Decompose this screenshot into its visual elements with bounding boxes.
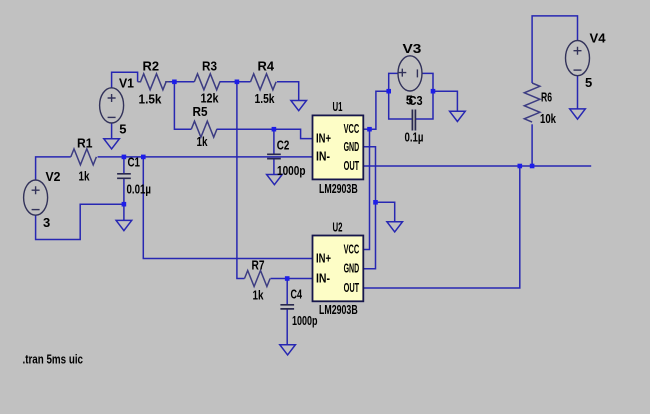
resistor R2 [138, 74, 169, 90]
wire U1 GND chain down to U2 GND [363, 147, 376, 269]
svg-text:C2: C2 [277, 138, 290, 153]
wire V2 bottom loop [36, 204, 124, 239]
ground below C4 [280, 345, 296, 355]
ground below C1 [116, 220, 132, 230]
ground right of R4 [291, 101, 307, 111]
wire R3R4 junction down to R7 [237, 82, 245, 279]
svg-text:R5: R5 [193, 104, 208, 119]
op-amp U2 box [313, 236, 364, 302]
wire R2R3 junction down to R5 [174, 82, 191, 129]
wire C1 bottom lead [123, 178, 125, 204]
resistor R4 [251, 74, 277, 90]
svg-text:IN+: IN+ [316, 251, 331, 266]
svg-text:R4: R4 [258, 59, 275, 74]
svg-text:OUT: OUT [344, 158, 360, 173]
svg-text:R7: R7 [252, 258, 265, 273]
wire V1 top to R2 [112, 72, 138, 88]
wire node to U2 IN+ [143, 157, 312, 259]
capacitor C3 (horizontal) [412, 110, 415, 131]
svg-text:U2: U2 [333, 220, 343, 235]
resistor R7 [245, 271, 271, 287]
wire R2 right to R3 left [165, 81, 194, 83]
svg-text:1000p: 1000p [292, 313, 318, 328]
svg-text:0.01µ: 0.01µ [127, 182, 152, 197]
svg-text:C3: C3 [409, 93, 423, 108]
svg-text:1k: 1k [197, 134, 209, 149]
wire C3 right loop [416, 91, 433, 119]
svg-text:LM2903B: LM2903B [319, 302, 358, 317]
wire R3 right to R4 left [220, 81, 251, 83]
svg-text:GND: GND [344, 261, 360, 276]
resistor R1 [71, 149, 97, 165]
svg-text:1.5k: 1.5k [255, 91, 276, 106]
svg-text:3: 3 [43, 215, 50, 230]
svg-text:1k: 1k [79, 169, 91, 184]
capacitor C1 [117, 174, 131, 179]
wire main line R1 to U1 IN- [98, 156, 313, 158]
resistor R6 (vertical) [524, 83, 540, 122]
wire R6 top to V4 top [532, 16, 577, 83]
svg-text:V3: V3 [403, 41, 422, 56]
svg-text:IN+: IN+ [316, 131, 331, 146]
voltage source V1 [100, 88, 124, 123]
wire U1 OUT line [363, 165, 592, 167]
svg-text:5: 5 [119, 121, 126, 136]
svg-text:VCC: VCC [344, 241, 360, 256]
svg-text:0.1µ: 0.1µ [405, 130, 424, 145]
ground for U1/U2 GND [387, 222, 403, 232]
ground right of V3 [450, 111, 466, 121]
svg-text:V2: V2 [46, 169, 61, 184]
svg-text:V1: V1 [119, 76, 134, 91]
wire V3 right lead [422, 73, 433, 91]
wire C2 ground stem [273, 159, 275, 175]
svg-text:1000p: 1000p [277, 163, 306, 178]
wire R7 right to U2 IN- [271, 278, 313, 280]
wire C1 ground stem [123, 204, 125, 220]
wire C3 left loop [389, 91, 412, 119]
wire C4 top lead [286, 279, 288, 305]
ground below C2 [267, 175, 283, 185]
voltage source V2 [24, 180, 48, 215]
wire U1 VCC lead [363, 128, 370, 130]
svg-text:R1: R1 [77, 136, 93, 151]
wire C4 bottom lead to ground [286, 309, 288, 345]
resistor R5 [191, 121, 217, 137]
wire R5 right to C2 node to U1 IN+ [217, 129, 313, 138]
resistor R3 [194, 74, 220, 90]
svg-text:R3: R3 [202, 59, 217, 74]
wire V2 top stem [36, 157, 71, 180]
svg-text:OUT: OUT [344, 280, 360, 295]
wire V4 bottom stem [577, 76, 579, 109]
svg-text:V4: V4 [590, 31, 607, 46]
svg-text:R6: R6 [541, 90, 552, 105]
svg-text:C1: C1 [128, 155, 141, 170]
svg-text:1.5k: 1.5k [139, 92, 163, 107]
wire V1 bottom stem [111, 123, 113, 139]
svg-text:U1: U1 [333, 99, 343, 114]
voltage source V4 [566, 41, 590, 76]
wire C2 top lead [273, 129, 275, 154]
wire U2 OUT feedback up [363, 166, 520, 288]
capacitor C4 [280, 305, 294, 309]
wire V3 node to ground [433, 91, 457, 111]
svg-text:1k: 1k [253, 288, 265, 303]
op-amp U1 box [313, 115, 364, 179]
svg-text:GND: GND [344, 139, 360, 154]
svg-text:5: 5 [585, 75, 592, 90]
svg-text:R2: R2 [143, 59, 160, 74]
wire VCC riser to V3 left node [370, 91, 389, 129]
svg-text:IN-: IN- [316, 270, 330, 285]
ground below V1 [104, 139, 120, 149]
svg-text:.tran 5ms uic: .tran 5ms uic [23, 352, 84, 367]
wire R6 bottom to OUT line [531, 124, 533, 166]
svg-text:LM2903B: LM2903B [319, 181, 358, 196]
wire V3 left lead [389, 73, 398, 91]
capacitor C2 [267, 154, 281, 158]
voltage source V3 (rotated, + left) [398, 56, 422, 91]
svg-text:IN-: IN- [316, 149, 330, 164]
svg-text:C4: C4 [291, 287, 303, 302]
svg-text:VCC: VCC [344, 121, 360, 136]
wire U1 VCC down to U2 VCC [363, 129, 370, 249]
ground below V4 [570, 109, 586, 119]
svg-text:10k: 10k [540, 111, 557, 126]
wire C1 top lead [123, 157, 125, 173]
wire GND branch to ground symbol [376, 202, 395, 221]
wire R4 right to ground [277, 82, 299, 101]
